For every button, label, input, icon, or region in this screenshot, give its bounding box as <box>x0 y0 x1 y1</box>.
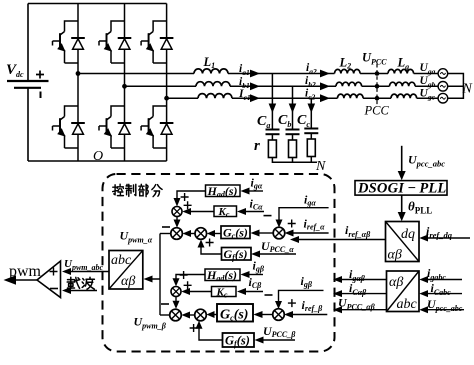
inverter leg C vertical <box>166 4 168 162</box>
wire Had beta to upper junction <box>176 275 205 282</box>
current arrow ib2 <box>320 82 330 90</box>
stub i_C_beta into Kc <box>244 291 263 293</box>
svg-text:O: O <box>93 149 103 164</box>
block DSOGI-PLL <box>355 181 447 197</box>
stub U_PCC_alpha into Gf <box>258 253 296 255</box>
block dq/alphabeta <box>386 222 420 263</box>
block Gc(s) beta <box>217 304 253 323</box>
arrowhead into DSOGI <box>398 171 406 180</box>
svg-text:N: N <box>315 159 326 174</box>
plus in comparator <box>50 268 58 276</box>
wire Gf to middle junction bottom <box>201 245 222 254</box>
current arrow ib1 <box>250 82 260 90</box>
minus sign beta feedback <box>161 303 169 305</box>
wire upper beta to pwm beta junction <box>175 297 177 305</box>
inverter leg A vertical <box>77 4 79 162</box>
svg-text:DSOGI − PLL: DSOGI − PLL <box>357 181 447 197</box>
source Uga <box>438 69 448 79</box>
arrowhead i_g_beta <box>241 271 250 278</box>
wire i_gabc in <box>426 279 462 281</box>
inductor L1 phase C <box>198 94 232 99</box>
wire: capacitor branch b vertical <box>292 86 294 129</box>
transistor Q1 (upper leg A IGBT+diode) <box>53 20 85 63</box>
arrowhead i_g_beta feedback <box>275 301 282 309</box>
svg-text:abc: abc <box>111 253 132 268</box>
arrowhead into Gc beta <box>254 311 263 318</box>
block Gf(s) alpha <box>222 247 252 262</box>
wire i_ref_alphabeta <box>297 239 386 241</box>
plus sign Had input <box>181 193 189 201</box>
label 载波 (carrier, drawn strokes) <box>67 277 94 289</box>
capacitor Ca plates <box>266 130 280 135</box>
resistor r phase b <box>289 140 297 158</box>
stub i_g_beta into Had <box>247 274 263 276</box>
inductor L2 phase B <box>336 82 362 86</box>
summing junction error alpha <box>273 227 285 239</box>
transistor Q3 (upper leg B IGBT+diode) <box>99 20 131 63</box>
carrier input wire 载波 <box>69 290 97 292</box>
svg-text:abc: abc <box>397 297 418 312</box>
stub i_g_alpha into Had <box>247 190 263 192</box>
summing junction error beta <box>273 309 285 321</box>
svg-text:Gf(s): Gf(s) <box>224 247 248 262</box>
arrowhead i_C_alpha <box>237 208 246 215</box>
arrowhead U_pcc_abc <box>419 306 428 313</box>
arrowhead i_g_alpha <box>241 188 250 195</box>
arrowhead i_ref_dq <box>419 235 428 242</box>
wire phase A: L2 to Lg <box>360 73 388 75</box>
capacitor Cb plates <box>286 130 300 135</box>
wire: DC top bus <box>28 3 167 5</box>
stub i_ref_alpha <box>291 232 329 234</box>
plus sign i_ref_alpha <box>288 220 296 228</box>
current arrow into Cb <box>289 104 297 114</box>
wire: capacitor branch c vertical <box>310 98 312 129</box>
current arrow ia1 <box>250 70 260 78</box>
transistor Q6 (lower leg B IGBT+diode) <box>99 105 131 148</box>
wire Gf beta to middle junction bottom <box>199 326 223 340</box>
wire Upwm_beta <box>160 314 170 316</box>
pwm output arrowhead <box>4 275 17 285</box>
wire Gc to middle junction <box>214 233 221 235</box>
wire cap b to resistor <box>292 134 294 140</box>
arrowhead Gf beta <box>196 321 203 329</box>
wire: phase C line <box>167 97 198 99</box>
wire Gc beta to middle junction <box>213 314 217 316</box>
arrowhead U_PCC_alphabeta <box>333 306 342 313</box>
inverter leg B vertical <box>124 4 126 162</box>
minus in comparator <box>50 288 58 290</box>
svg-text:αβ: αβ <box>388 248 402 263</box>
current arrow ic1 <box>250 94 260 102</box>
arrowhead Gc->middle <box>207 230 215 237</box>
block abc/alphabeta (modulation transform) <box>109 251 143 290</box>
arrowhead middle->pwm junction <box>183 230 192 237</box>
arrowhead i_g_alphabeta <box>333 276 342 283</box>
svg-text:N: N <box>462 82 473 97</box>
inductor L2 phase A <box>335 69 361 73</box>
label 控制部分 (control section, drawn strokes) <box>113 184 162 196</box>
node PCC b <box>375 84 380 89</box>
wire U_PCC_alphabeta out <box>340 309 387 311</box>
resistor r phase c <box>307 139 315 157</box>
wire: DC bottom bus <box>28 160 167 162</box>
wire: phase B line after L1 <box>230 85 336 87</box>
minus sign feedback <box>162 226 170 228</box>
arrowhead i_gabc <box>419 276 428 283</box>
stub i_g_beta feedback top <box>279 290 324 304</box>
wire: phase B line <box>125 85 197 87</box>
summing junction middle alpha <box>195 228 207 240</box>
wire sources to grid neutral N <box>448 74 464 99</box>
stub i_g_alpha feedback top <box>279 208 329 223</box>
arrowhead into abc block <box>144 276 153 283</box>
wire i_Cabc in <box>426 293 462 295</box>
arrowhead U_PCC_alpha <box>251 251 260 258</box>
inductor L1 phase A <box>194 69 228 74</box>
plus sign Gf beta input <box>190 324 198 332</box>
wire: phase A line <box>78 73 194 75</box>
battery plus sign <box>36 71 44 79</box>
block Gc(s) alpha <box>221 226 250 241</box>
wire: DC left link bottom <box>27 88 29 162</box>
PCC dashed vertical <box>376 64 378 106</box>
summing junction upper beta <box>171 287 181 297</box>
inductor Lg phase B <box>390 82 416 86</box>
wire cap c to resistor <box>310 133 312 139</box>
wire phase A: Lg to source <box>414 73 439 75</box>
transistor Q5 (upper leg C IGBT+diode) <box>141 20 173 63</box>
svg-text:Gf(s): Gf(s) <box>225 334 250 349</box>
wire resistor bottoms to N <box>272 157 317 163</box>
arrowhead into upper beta junction <box>173 278 180 286</box>
arrowhead into upper junction right <box>182 208 191 215</box>
svg-text:pwm: pwm <box>9 263 42 280</box>
wire Upwm_abc into comparator <box>69 271 109 273</box>
wire cap a to resistor <box>271 134 273 140</box>
arrowhead i_ref_alpha <box>285 230 294 237</box>
wire Kc beta to upper junction <box>188 291 212 293</box>
wire Had to upper junction <box>177 191 206 201</box>
node PCC c <box>375 96 380 101</box>
stub i_ref_beta <box>291 314 328 316</box>
wire: capacitor branch a vertical <box>271 74 273 130</box>
wire phase B: Lg to source <box>415 85 438 87</box>
source Ugc <box>438 93 448 103</box>
arrowhead carrier <box>62 287 71 294</box>
svg-text:r: r <box>254 138 260 154</box>
wire: phase C line after L1 <box>232 97 338 99</box>
wire phase C: Lg to source <box>417 97 439 99</box>
plus sign Gf input <box>206 239 214 247</box>
summing junction middle beta <box>195 309 207 321</box>
svg-text:Gc(s): Gc(s) <box>220 308 248 323</box>
wire i_C_alphabeta out <box>340 293 387 295</box>
plus sign Kc input <box>184 201 192 209</box>
arrowhead middle beta <box>181 312 190 319</box>
plus sign i_ref_beta <box>288 299 296 307</box>
node phase B <box>122 84 127 89</box>
wire middle to pwm junction <box>190 233 195 235</box>
arrowhead into upper junction top <box>174 198 181 207</box>
arrowhead Kc beta <box>181 288 190 295</box>
current arrow into Cc <box>308 104 316 114</box>
summing junction Upwm_alpha <box>171 228 183 240</box>
pwm comparator triangle <box>37 261 61 298</box>
wire phase C: L2 to Lg <box>363 97 391 99</box>
svg-text:dq: dq <box>401 227 415 242</box>
plus sign Had beta <box>180 271 188 279</box>
node PCC a <box>375 71 380 76</box>
wire i_g_alphabeta out <box>340 279 387 281</box>
source Ugb <box>438 82 448 92</box>
wire U_pcc_abc in <box>426 309 464 311</box>
wire error junction to Gc <box>258 232 273 234</box>
arrowhead into pwm junction <box>174 220 181 228</box>
wire: phase A line after L1 <box>228 73 335 75</box>
arrowhead Gf->middle junction <box>198 240 205 248</box>
battery minus sign <box>40 92 42 99</box>
svg-text:Gc(s): Gc(s) <box>223 226 248 241</box>
arrowhead i_Cabc <box>419 290 428 297</box>
arrowhead i_C_alphabeta <box>333 290 342 297</box>
inductor Lg phase C <box>391 94 417 98</box>
arrowhead i_g_alpha feedback <box>276 220 283 228</box>
pwm output wire <box>8 279 37 281</box>
battery Vdc plates <box>7 81 49 88</box>
svg-text:αβ: αβ <box>389 275 403 290</box>
arrowhead U_PCC_beta <box>255 337 264 344</box>
transistor Q2 (lower leg C IGBT+diode) <box>141 105 173 148</box>
current arrow into Ca <box>269 104 277 114</box>
plus sign Kc beta <box>184 281 192 289</box>
wire Upwm_alpha <box>160 233 171 235</box>
stub i_C_alpha into Kc <box>244 211 264 213</box>
wire error beta to Gc <box>261 314 273 316</box>
wire from junction vertical into abc block <box>150 234 160 316</box>
arrowhead i_ref_alphabeta <box>290 236 299 243</box>
arrowhead theta into dq block <box>398 212 406 221</box>
block Had(s) alpha <box>206 184 241 199</box>
node phase C <box>164 96 169 101</box>
resistor r phase a <box>268 140 276 158</box>
block Gf(s) beta <box>223 333 255 349</box>
arrowhead i_C_beta <box>237 288 246 295</box>
arrowhead into Gc <box>251 230 260 237</box>
dashed control box <box>103 174 335 352</box>
inductor L1 phase B <box>196 82 230 87</box>
arrowhead Gc beta <box>206 311 214 318</box>
capacitor Cc plates <box>304 129 318 134</box>
minus sign i_g feedback <box>264 215 272 217</box>
block Kc beta <box>212 287 237 300</box>
svg-text:αβ: αβ <box>121 274 135 289</box>
summing junction Upwm_beta <box>170 309 182 321</box>
stub U_PCC_beta into Gf <box>261 339 295 341</box>
wire middle beta to pwm junction <box>189 314 195 316</box>
wire Kc to upper junction <box>189 211 214 213</box>
inductor Lg phase A <box>388 69 414 73</box>
arrowhead into pwm beta junction <box>173 301 180 309</box>
arrowhead Upwm_abc <box>62 268 71 275</box>
node phase A <box>76 71 81 76</box>
arrowhead i_ref_beta <box>284 311 293 318</box>
block Had(s) beta <box>205 268 240 283</box>
svg-text:PCC: PCC <box>364 104 390 118</box>
wire upper junction to pwm junction <box>176 217 178 224</box>
current arrow ic2 <box>320 94 330 102</box>
wire U_pcc_abc into DSOGI <box>401 146 403 175</box>
inductor L2 phase C <box>338 94 364 98</box>
block alphabeta/abc <box>387 271 420 312</box>
stub i_ref_dq <box>426 237 470 239</box>
transistor Q4 (lower leg A IGBT+diode) <box>53 105 85 148</box>
summing junction upper alpha <box>172 207 182 217</box>
minus sign i_g beta feedback <box>265 294 273 296</box>
current arrow ia2 <box>320 70 330 78</box>
wire: DC left link top <box>27 4 29 82</box>
wire theta_PLL <box>401 195 403 215</box>
block Kc alpha <box>214 206 237 219</box>
wire phase B: L2 to Lg <box>362 85 390 87</box>
